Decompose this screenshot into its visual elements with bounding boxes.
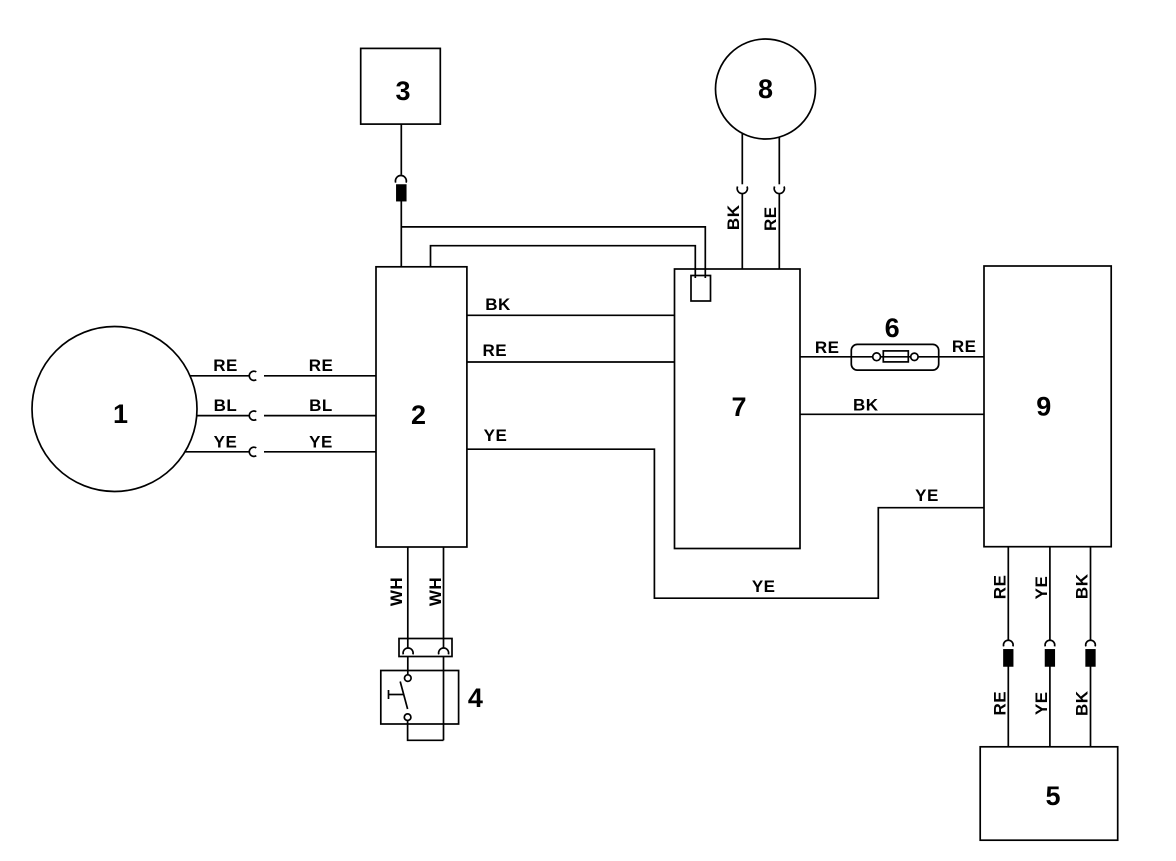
component 8 (lamp circle) bbox=[716, 39, 816, 139]
svg-text:YE: YE bbox=[484, 426, 508, 445]
svg-text:RE: RE bbox=[952, 337, 977, 356]
svg-text:7: 7 bbox=[731, 392, 746, 422]
wire RE box7 to box9 through fuse bbox=[800, 356, 984, 358]
wire from box 2 top to diagnostic plug (lower run) bbox=[431, 246, 696, 278]
box 2 (control unit) bbox=[376, 267, 467, 547]
svg-text:BL: BL bbox=[214, 396, 238, 415]
wire RE from component 1 bbox=[190, 375, 249, 377]
wire RE from component 8 bbox=[778, 138, 780, 185]
connector arc right bbox=[439, 648, 449, 654]
switch handle bbox=[389, 694, 404, 696]
box 4 (switch) bbox=[381, 671, 459, 725]
wire right through box 4 bbox=[443, 657, 445, 741]
connector sleeve under box 3 bbox=[397, 185, 406, 201]
connector on YE wire bbox=[249, 447, 256, 456]
svg-text:YE: YE bbox=[214, 432, 238, 451]
svg-text:BK: BK bbox=[485, 295, 511, 314]
box 3 bbox=[361, 48, 441, 124]
wire connector block to switch bbox=[407, 657, 409, 675]
fuse terminal right bbox=[911, 353, 918, 360]
svg-text:BL: BL bbox=[309, 396, 333, 415]
svg-text:YE: YE bbox=[1032, 576, 1051, 600]
switch terminal bottom bbox=[404, 714, 411, 721]
diagnostic plug on box 7 bbox=[691, 276, 711, 302]
connector cap YE bbox=[1045, 640, 1055, 646]
connector cup on BK wire bbox=[737, 187, 747, 194]
box 7 (CDI unit) bbox=[675, 269, 801, 549]
wire BK from box 9 down bbox=[1090, 547, 1092, 640]
connector on RE wire bbox=[249, 371, 256, 380]
svg-text:YE: YE bbox=[752, 577, 776, 596]
svg-text:WH: WH bbox=[387, 577, 406, 606]
connector sleeve BK bbox=[1086, 650, 1095, 666]
svg-text:RE: RE bbox=[482, 341, 507, 360]
svg-text:YE: YE bbox=[1032, 691, 1051, 715]
svg-text:RE: RE bbox=[991, 691, 1010, 716]
connector on BL wire bbox=[249, 411, 256, 420]
component 1 (motor circle) bbox=[32, 327, 197, 492]
svg-text:RE: RE bbox=[213, 356, 238, 375]
wire BK to box 5 bbox=[1090, 666, 1092, 747]
svg-text:3: 3 bbox=[395, 76, 410, 106]
wire branch to diagnostic plug (upper run) bbox=[401, 227, 705, 278]
connector sleeve RE bbox=[1004, 650, 1013, 666]
wire BL to box 2 bbox=[264, 415, 376, 417]
svg-text:BK: BK bbox=[724, 204, 743, 230]
connector arc left bbox=[403, 648, 413, 654]
connector cap BK bbox=[1086, 640, 1096, 646]
wire BK box7 to box9 bbox=[800, 413, 984, 415]
wire YE from box 9 down bbox=[1049, 547, 1051, 640]
svg-text:RE: RE bbox=[991, 575, 1010, 600]
svg-text:YE: YE bbox=[915, 486, 939, 505]
fuse terminal left bbox=[873, 353, 881, 361]
connector cap under box 3 bbox=[395, 176, 406, 183]
wire RE to box 7 bbox=[778, 194, 780, 269]
wire BL from component 1 bbox=[196, 415, 249, 417]
wire BK to box 7 bbox=[741, 194, 743, 269]
wire RE from box 9 down bbox=[1007, 547, 1009, 640]
svg-text:RE: RE bbox=[309, 356, 334, 375]
wire RE box2 to box7 bbox=[467, 361, 675, 363]
connector cup on RE wire bbox=[774, 187, 784, 194]
wire YE to box 2 bbox=[264, 451, 376, 453]
wire WH right from box 2 bbox=[443, 547, 445, 648]
wire YE to box 5 bbox=[1049, 666, 1051, 747]
wire YE long run box2 to box9 bbox=[467, 449, 984, 598]
svg-text:4: 4 bbox=[468, 683, 483, 713]
box 9 (regulator) bbox=[984, 266, 1111, 547]
svg-text:6: 6 bbox=[885, 313, 900, 343]
switch terminal top bbox=[405, 675, 412, 682]
wire WH left from box 2 bbox=[407, 547, 409, 648]
wire BK from component 8 bbox=[741, 134, 743, 185]
svg-text:BK: BK bbox=[853, 396, 879, 415]
wire from box 3 down bbox=[400, 124, 402, 175]
wire YE from component 1 bbox=[185, 451, 249, 453]
wire RE to box 5 bbox=[1007, 666, 1009, 747]
svg-text:2: 2 bbox=[411, 400, 426, 430]
connector sleeve YE bbox=[1046, 650, 1055, 666]
wire RE to box 2 bbox=[264, 375, 376, 377]
connector cap RE bbox=[1004, 640, 1014, 646]
svg-text:8: 8 bbox=[758, 74, 773, 104]
fuse 6 housing bbox=[851, 344, 938, 370]
box 5 (battery) bbox=[980, 747, 1117, 840]
svg-text:5: 5 bbox=[1045, 781, 1060, 811]
wire below switch U-turn bbox=[408, 721, 444, 741]
svg-text:YE: YE bbox=[309, 432, 333, 451]
wire from connector to box 2 bbox=[400, 201, 402, 267]
connector block above switch bbox=[399, 639, 452, 657]
svg-text:WH: WH bbox=[426, 577, 445, 606]
svg-text:RE: RE bbox=[761, 206, 780, 231]
svg-text:1: 1 bbox=[113, 399, 128, 429]
svg-text:RE: RE bbox=[815, 338, 840, 357]
svg-text:BK: BK bbox=[1073, 690, 1092, 716]
fuse element bbox=[883, 351, 908, 362]
svg-text:9: 9 bbox=[1036, 392, 1051, 422]
svg-text:BK: BK bbox=[1073, 573, 1092, 599]
switch lever bbox=[400, 682, 407, 710]
wire BK box2 to box7 bbox=[467, 314, 675, 316]
